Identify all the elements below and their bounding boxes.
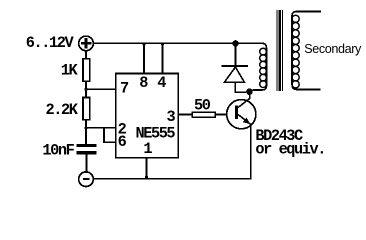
svg-text:2.2K: 2.2K (46, 101, 79, 119)
svg-text:10nF: 10nF (42, 141, 74, 159)
svg-text:3: 3 (167, 108, 176, 126)
svg-text:Secondary: Secondary (304, 42, 362, 56)
svg-text:NE555: NE555 (136, 125, 176, 143)
svg-text:8: 8 (139, 74, 148, 92)
svg-text:6..12V: 6..12V (26, 34, 75, 52)
svg-text:1K: 1K (61, 61, 79, 79)
svg-text:or equiv.: or equiv. (255, 141, 325, 159)
svg-text:1: 1 (143, 140, 152, 158)
svg-text:7: 7 (120, 79, 129, 97)
svg-text:4: 4 (157, 74, 166, 92)
svg-text:6: 6 (118, 133, 127, 151)
svg-text:50: 50 (194, 97, 211, 115)
